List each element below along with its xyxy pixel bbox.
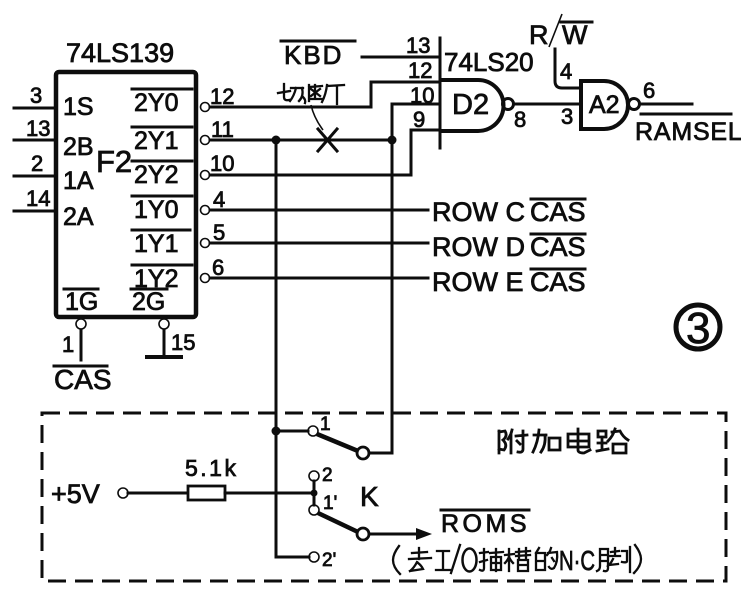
svg-text:12: 12 (210, 84, 234, 109)
net KBD label (281, 40, 355, 70)
resistor 5.1k (185, 455, 238, 500)
svg-text:1G: 1G (65, 288, 98, 316)
cut mark X (318, 129, 337, 151)
svg-text:2: 2 (322, 465, 333, 486)
wire D2 out to A2 in (514, 104, 581, 129)
F2 output name 1Y1 (132, 230, 190, 258)
svg-text:3: 3 (686, 304, 710, 353)
gate D2 output bubble (503, 99, 527, 133)
svg-text:6: 6 (643, 78, 655, 103)
svg-text:15: 15 (171, 330, 195, 355)
wire contact 2' to left vertical (276, 556, 309, 559)
svg-text:1A: 1A (63, 167, 94, 195)
F2 designator (96, 144, 132, 179)
gate A2 output bubble (629, 78, 656, 110)
svg-text:1': 1' (323, 493, 337, 514)
svg-text:4: 4 (560, 59, 572, 84)
wire pivot1 up to D2 pin10 node (369, 450, 392, 453)
net ROMS (441, 510, 530, 538)
svg-text:ROMS: ROMS (441, 510, 530, 538)
power +5V (51, 479, 100, 509)
svg-text:N·C: N·C (559, 545, 595, 576)
pin 13 wire (left) (14, 116, 56, 141)
pin 15 wire (163, 330, 166, 357)
svg-text:ROW E: ROW E (432, 267, 524, 297)
svg-text:2: 2 (31, 151, 43, 176)
figure number 3 circled (676, 304, 720, 353)
svg-text:2A: 2A (63, 203, 94, 231)
F2 enable name 2G (131, 288, 167, 316)
F2 pin 1 bubble (76, 319, 86, 329)
svg-text:14: 14 (26, 186, 50, 211)
F2 pin 15 bubble (159, 319, 195, 355)
F2 pin 11 bubble (201, 117, 234, 145)
wire R/W to A2 pin4 (555, 49, 581, 88)
switch K blade 2 (318, 513, 358, 532)
pin 1 wire (62, 330, 81, 360)
svg-text:+5V: +5V (51, 479, 100, 509)
svg-text:CAS: CAS (54, 364, 112, 395)
net RAMSEL (635, 114, 741, 146)
D2 pin 9 label (413, 107, 425, 132)
svg-text:10: 10 (210, 151, 234, 176)
net ROW E CAS (432, 267, 586, 297)
F2 pin 4 bubble (201, 187, 226, 215)
wire left vertical (pin11 junction down to switch) (275, 140, 278, 557)
switch K blade 1 (317, 434, 358, 451)
label 切断 (cut) (278, 84, 344, 130)
wire contact2 to contact 1' (313, 481, 316, 505)
wire F2 pin12 to D2 pin12 (210, 82, 438, 107)
svg-text:1Y1: 1Y1 (134, 230, 178, 258)
svg-text:2B: 2B (63, 133, 94, 161)
node junction pin11-right (388, 136, 397, 145)
net ROW D CAS (432, 232, 586, 262)
svg-text:5: 5 (213, 220, 225, 245)
F2 pin name 2B (63, 133, 94, 161)
F2 pin name 1A (63, 167, 94, 195)
gate A2 designator (589, 91, 620, 119)
svg-text:F2: F2 (96, 144, 132, 179)
svg-text:13: 13 (26, 116, 50, 141)
svg-text:12: 12 (408, 58, 432, 83)
svg-text:CAS: CAS (530, 267, 586, 297)
D2 pin 13 label (406, 33, 430, 58)
net ROW C CAS (432, 197, 586, 227)
label 附加电路 (added circuit) (499, 429, 628, 453)
switch K contact 1 (308, 414, 331, 436)
svg-text:1Y0: 1Y0 (134, 196, 178, 224)
gate D2 designator (452, 89, 489, 121)
svg-text:W: W (562, 20, 588, 50)
F2 pin 5 bubble (201, 220, 226, 248)
svg-text:ROW D: ROW D (432, 232, 525, 262)
svg-text:CAS: CAS (530, 197, 586, 227)
svg-text:2G: 2G (132, 288, 165, 316)
gate D2 input bar (439, 38, 442, 148)
F2 output name 1Y0 (132, 196, 192, 224)
gate A2 body (581, 81, 628, 129)
wire junction right to D2 pin10 (392, 104, 438, 140)
switch K pivot 1 (357, 447, 369, 459)
svg-text:D2: D2 (452, 89, 489, 121)
svg-text:5.1k: 5.1k (185, 455, 238, 481)
pin 14 wire (left) (14, 186, 56, 211)
svg-text:1: 1 (320, 414, 331, 435)
D2 pin 12 label (408, 58, 432, 83)
wire F2 pin5 to ROW D (210, 242, 428, 245)
svg-text:1S: 1S (63, 93, 94, 121)
switch K contact 2 (309, 465, 333, 486)
pin 3 wire (left) (14, 83, 56, 108)
svg-text:2': 2' (322, 550, 336, 571)
+5V terminal (118, 488, 128, 498)
F2 output name 2Y1 (132, 127, 192, 155)
switch K contact 1' (309, 493, 337, 515)
node junction pin11-left (272, 136, 281, 145)
wire right vertical (junction down to switch throw 1) (391, 140, 394, 453)
ground (pin15) (147, 355, 181, 359)
F2 pin name 1S (63, 93, 94, 121)
svg-text:3: 3 (561, 104, 573, 129)
wire A2 output (640, 103, 692, 106)
net R/W label (529, 14, 592, 50)
svg-text:RAMSEL: RAMSEL (635, 118, 741, 146)
net CAS (pin1) (54, 364, 112, 395)
F2 output name 2Y2 (132, 161, 192, 189)
F2 output name 1Y2 (132, 265, 192, 293)
F2 pin 10 bubble (201, 151, 235, 180)
node junction +5V feed (311, 490, 318, 497)
svg-text:11: 11 (211, 117, 234, 142)
F2 enable name 1G (64, 288, 98, 316)
wire resistor to switch common (225, 492, 310, 495)
F2 pin name 2A (63, 203, 94, 231)
svg-text:13: 13 (406, 33, 430, 58)
wire +5V to resistor (128, 492, 188, 495)
wire F2 pin11 (cut) (210, 139, 392, 142)
svg-text:6: 6 (212, 255, 224, 280)
switch K pivot 2 (357, 528, 369, 540)
wire F2 pin10 to D2 pin9 (210, 130, 438, 175)
IC U-F2 74LS139 box (56, 72, 196, 317)
label 74LS20 (444, 47, 534, 77)
switch K contact 2' (309, 550, 336, 571)
pin 2 wire (left) (14, 151, 56, 176)
svg-text:2Y2: 2Y2 (134, 161, 178, 189)
node junction at contact 1 (272, 427, 281, 436)
svg-text:8: 8 (514, 107, 526, 132)
switch K designator (360, 481, 379, 512)
svg-text:K: K (360, 481, 379, 512)
svg-text:74LS20: 74LS20 (444, 47, 534, 77)
svg-text:4: 4 (213, 187, 225, 212)
svg-text:KBD: KBD (284, 40, 343, 70)
wire F2 pin4 to ROW C (210, 209, 428, 212)
svg-text:74LS139: 74LS139 (66, 38, 174, 68)
D2 pin 10 label (410, 83, 434, 108)
wire F2 pin6 to ROW E (210, 277, 428, 280)
svg-text:R: R (529, 20, 549, 50)
svg-text:ROW C: ROW C (432, 197, 525, 227)
F2 output name 2Y0 (132, 89, 192, 117)
svg-text:3: 3 (30, 83, 42, 108)
svg-text:2Y1: 2Y1 (134, 127, 178, 155)
svg-text:1: 1 (62, 332, 74, 357)
wire pivot2 to ROMS arrow (369, 528, 432, 540)
label (去工/0插槽的N·C脚) destination note (393, 545, 641, 576)
svg-text:9: 9 (413, 107, 425, 132)
wire junction to contact 1 (276, 430, 308, 433)
gate D2 body (440, 80, 504, 131)
svg-text:A2: A2 (589, 91, 620, 119)
svg-text:CAS: CAS (530, 232, 586, 262)
wire KBD to D2 pin13 (362, 56, 438, 59)
F2 pin 6 bubble (201, 255, 225, 283)
label 74LS139 (66, 38, 174, 68)
F2 pin 12 bubble (201, 84, 235, 112)
svg-text:2Y0: 2Y0 (134, 89, 178, 117)
dashed enclosure (added circuit) (42, 413, 726, 581)
